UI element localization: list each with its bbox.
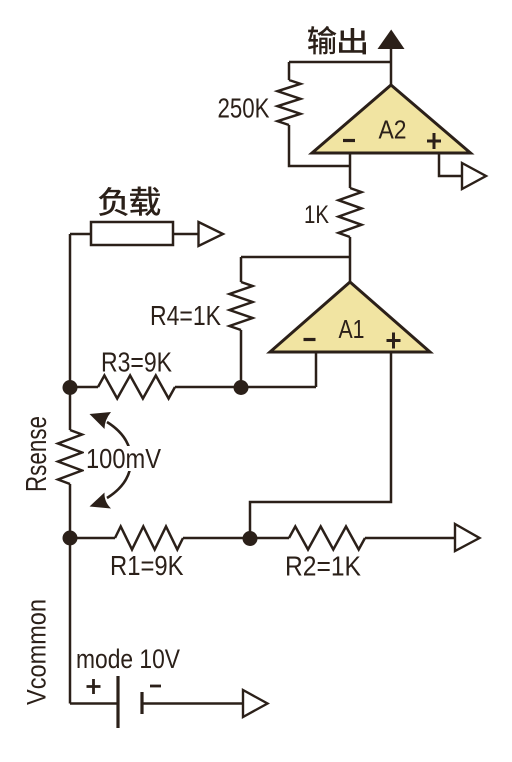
svg-text:A2: A2 (379, 115, 407, 145)
svg-text:A1: A1 (339, 314, 365, 344)
svg-text:R1=9K: R1=9K (110, 550, 184, 581)
svg-text:mode 10V: mode 10V (76, 644, 180, 674)
svg-text:Rsense: Rsense (21, 416, 53, 492)
svg-text:1K: 1K (304, 201, 329, 229)
svg-text:R4=1K: R4=1K (150, 300, 221, 331)
svg-text:250K: 250K (218, 93, 270, 124)
svg-text:100mV: 100mV (86, 443, 161, 474)
svg-text:Vcommon: Vcommon (22, 599, 52, 705)
svg-text:R3=9K: R3=9K (101, 347, 172, 378)
svg-text:R2=1K: R2=1K (285, 550, 361, 581)
